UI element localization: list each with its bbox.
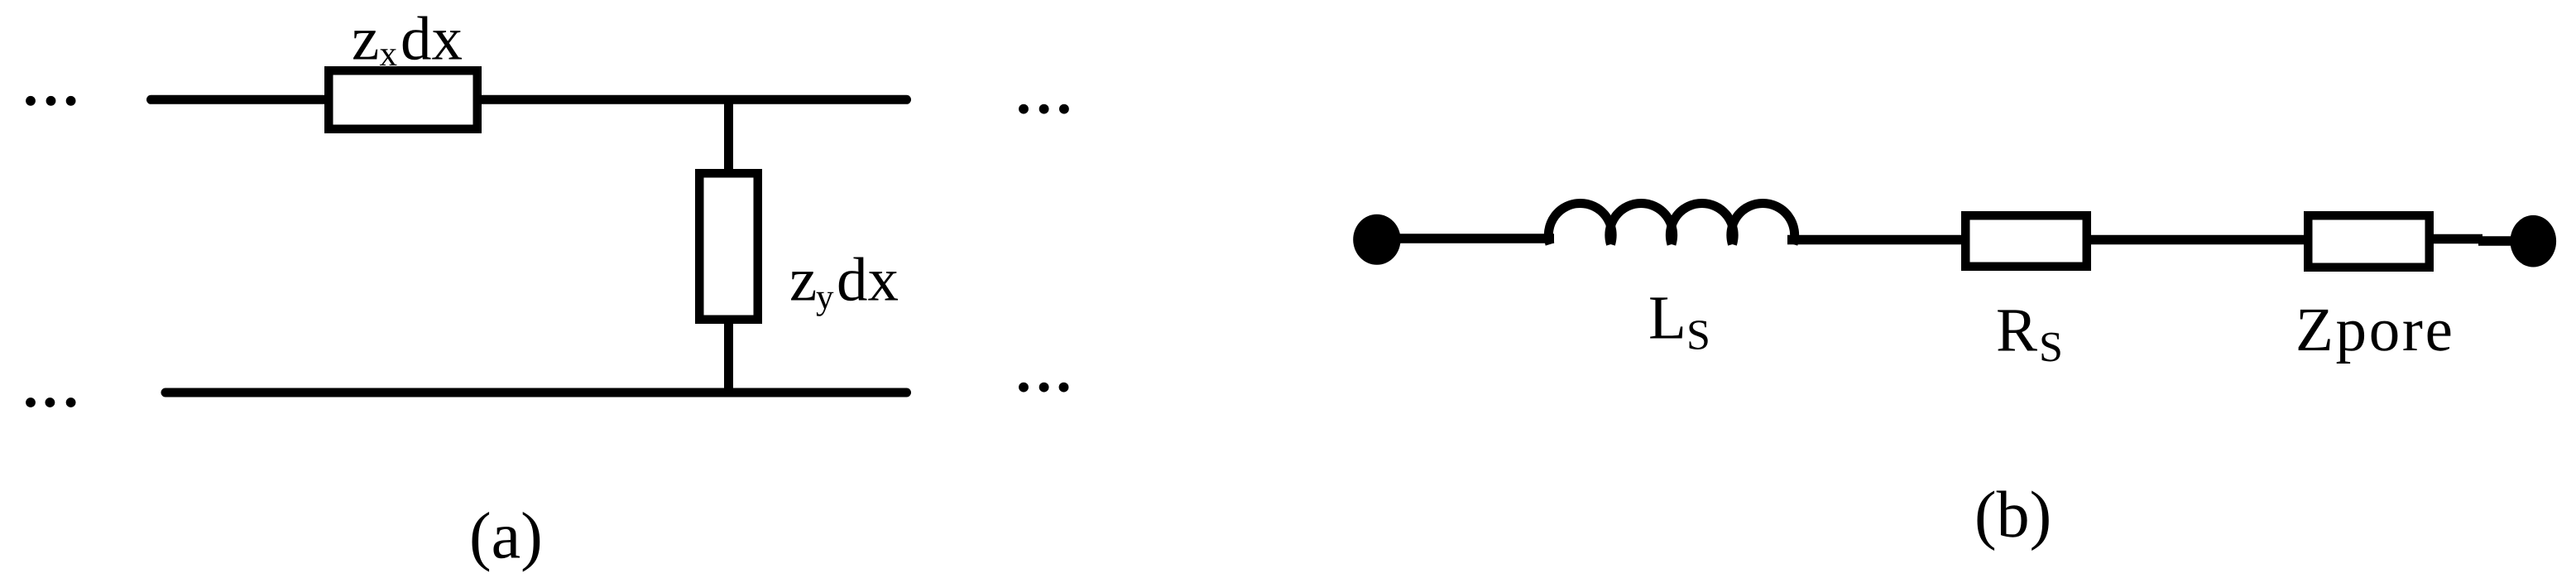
svg-text:R: R	[1996, 296, 2037, 365]
svg-text:y: y	[816, 278, 834, 317]
svg-text:x: x	[380, 35, 398, 74]
svg-text:S: S	[1686, 311, 1710, 359]
svg-text:(a): (a)	[469, 500, 543, 573]
wire bottom rail	[165, 388, 907, 397]
svg-text:(b): (b)	[1974, 479, 2051, 552]
svg-text:z: z	[352, 5, 379, 74]
wire terminal to inductor	[1377, 234, 1554, 243]
terminal node right (b)	[2511, 215, 2557, 267]
wire junction to shunt element	[724, 99, 733, 174]
resistor Zy (shunt element, vertical box)	[699, 173, 758, 320]
svg-text:Zpore: Zpore	[2295, 296, 2455, 364]
node dots bottom-left (ellipsis)	[26, 397, 75, 407]
node dots top-right (ellipsis)	[1019, 104, 1069, 114]
wire Zpore to terminal (upper step)	[2430, 234, 2482, 244]
node dots top-left (ellipsis)	[26, 96, 75, 106]
node dots bottom-right (ellipsis)	[1019, 383, 1068, 393]
resistor Zx (series element, horizontal box)	[329, 70, 477, 129]
inductor hump 3	[1670, 203, 1734, 244]
label zy dx	[789, 246, 899, 317]
wire RS to Zpore	[2087, 235, 2308, 245]
inductor hump 2	[1609, 203, 1673, 244]
terminal node left (b)	[1353, 214, 1400, 265]
svg-text:z: z	[789, 246, 817, 315]
wire inductor to resistor RS	[1787, 235, 1965, 245]
inductor LS (4 humps)	[1548, 203, 1612, 244]
wire shunt element to bottom rail	[724, 319, 733, 393]
resistor Zpore box	[2308, 215, 2430, 267]
resistor RS box	[1965, 215, 2087, 267]
svg-text:dx: dx	[837, 246, 899, 315]
label LS	[1648, 284, 1710, 359]
label RS	[1996, 296, 2063, 371]
wire top-left segment	[151, 95, 328, 104]
svg-text:L: L	[1648, 284, 1686, 353]
svg-text:S: S	[2039, 324, 2063, 371]
wire top-right segment	[477, 95, 907, 104]
svg-text:dx: dx	[401, 5, 463, 74]
wire step to terminal	[2478, 236, 2516, 246]
label zx dx	[352, 5, 463, 74]
inductor hump 4	[1731, 203, 1795, 244]
